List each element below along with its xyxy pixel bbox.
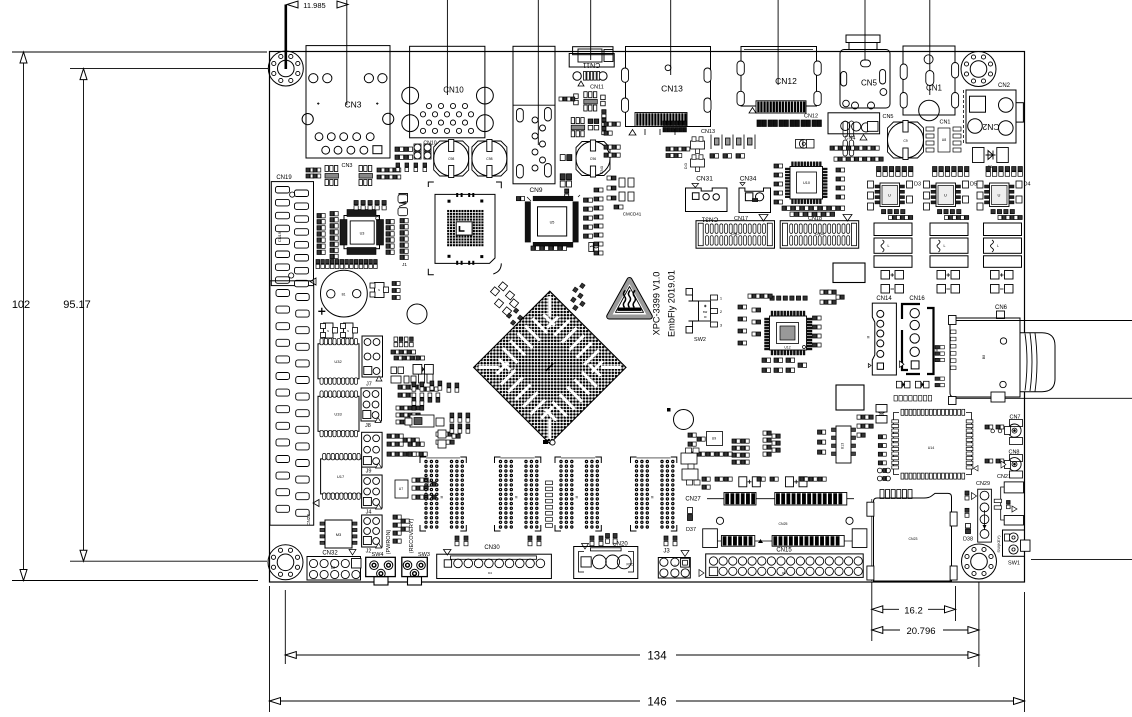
- svg-text:U17: U17: [337, 474, 345, 479]
- svg-text:D4: D4: [488, 571, 492, 575]
- svg-text:CN12: CN12: [775, 76, 797, 86]
- hole below SW2: [667, 408, 694, 430]
- svg-text:U7: U7: [399, 487, 404, 491]
- svg-text:J8: J8: [365, 423, 371, 429]
- shield pad square 2: [836, 385, 864, 410]
- svg-text:CN32: CN32: [322, 551, 338, 557]
- push button part above U10: [796, 139, 815, 148]
- passive cluster x688 y432: [688, 432, 732, 457]
- buck converter block 2 with IC D5: [924, 167, 978, 268]
- passives below U12: [762, 358, 807, 372]
- IC U8 with side pads: [926, 127, 961, 152]
- leader line to connector CN3: [346, 0, 348, 105]
- svg-text:CN10: CN10: [443, 86, 464, 95]
- mounting hole H2 top-right: [961, 52, 996, 87]
- svg-text:CN22: CN22: [306, 514, 311, 526]
- svg-text:M: M: [575, 495, 579, 498]
- connector CN15: [699, 548, 863, 578]
- diodes D41 area: [614, 178, 642, 217]
- passive cluster x396 y406: [396, 406, 420, 424]
- marker triangle near CN22: [313, 500, 319, 507]
- connector CN27: [685, 493, 854, 506]
- svg-text:CN2: CN2: [982, 122, 999, 132]
- passives right of U10: [836, 168, 845, 199]
- RF connector CN7: [985, 415, 1023, 445]
- passive rows below CN4: [830, 146, 883, 161]
- svg-text:U8: U8: [942, 138, 947, 142]
- DDR memory footprint M5: [420, 457, 466, 531]
- svg-text:ROD: ROD: [626, 563, 634, 567]
- svg-text:20.796: 20.796: [906, 626, 935, 637]
- mirrored label CN31: [701, 216, 718, 223]
- bypass capacitors right of U3: [386, 219, 408, 260]
- connector CN4: [828, 113, 880, 142]
- small connector outline left of SoC: [405, 413, 470, 448]
- svg-text:D38: D38: [963, 537, 973, 543]
- IC U10 (QFP): [785, 162, 827, 204]
- U6 corner brackets: [428, 182, 501, 275]
- svg-text:CN11: CN11: [590, 85, 604, 91]
- leader line to connector CN5: [864, 0, 866, 60]
- svg-text:16.2: 16.2: [904, 605, 923, 616]
- pads top-left of U5: [516, 197, 524, 201]
- capacitor cluster below C96: [560, 174, 571, 198]
- connector CN10 (dual USB): [402, 46, 493, 146]
- svg-text:U9: U9: [712, 437, 717, 441]
- passives below DDR1: [455, 536, 468, 546]
- buzzer symbol: [398, 195, 408, 216]
- svg-text:U: U: [888, 193, 891, 198]
- IC M3: [320, 520, 357, 548]
- svg-text:D6: D6: [782, 571, 786, 575]
- svg-text:(PWRON): (PWRON): [386, 529, 392, 554]
- passive cluster x398 y385: [398, 385, 438, 397]
- transistor right of battery: [370, 283, 389, 298]
- passive grid x732 y439: [732, 439, 749, 464]
- svg-text:CN29: CN29: [976, 481, 990, 487]
- rotated passives top-right of SoC: [571, 283, 586, 311]
- svg-text:CN6: CN6: [995, 305, 1008, 311]
- connector CN31: [686, 176, 728, 212]
- svg-text:CN14: CN14: [876, 296, 892, 302]
- connector CN2 (DC barrel jack): [964, 83, 1024, 143]
- svg-text:J7: J7: [366, 382, 372, 388]
- passives below DDR4: [664, 536, 677, 546]
- svg-text:SW1: SW1: [1008, 561, 1020, 567]
- output capacitor bank 2: [937, 271, 960, 294]
- svg-text:U5: U5: [550, 221, 555, 225]
- svg-text:CN31: CN31: [696, 176, 713, 183]
- svg-text:CMCD41: CMCD41: [623, 212, 642, 217]
- silkscreen text EmbFly 2019.01: [667, 270, 677, 337]
- svg-text:M: M: [515, 495, 519, 498]
- connector CN9 (DC jack / vertical connector): [513, 46, 555, 194]
- passive cluster left of SoC row2: [412, 393, 440, 410]
- pads right of battery: [392, 282, 400, 300]
- pads below CN14/CN16: [896, 381, 929, 388]
- svg-text:J2: J2: [366, 549, 372, 555]
- connector CN12 (HDMI type): [737, 47, 821, 107]
- vertical label txCN0: [599, 165, 604, 174]
- svg-text:CN13: CN13: [701, 129, 715, 135]
- passives right of U13: [857, 415, 873, 437]
- passive pads right of CN9: [559, 97, 575, 101]
- passive cluster left of CN31: [604, 122, 620, 157]
- svg-text:CN3: CN3: [341, 163, 352, 169]
- connector CN17: [696, 215, 775, 249]
- header J2: [362, 515, 383, 555]
- svg-text:11.985: 11.985: [303, 1, 325, 10]
- svg-text:M: M: [651, 495, 655, 498]
- pad row below CN16: [894, 396, 932, 402]
- svg-text:CN21: CN21: [997, 474, 1011, 480]
- IC U12 (QFP): [765, 311, 813, 355]
- svg-text:U3: U3: [360, 232, 365, 236]
- mounting hole H1 top-left: [268, 51, 303, 86]
- battery holder B1: [318, 270, 367, 317]
- transistor Q2: [684, 155, 705, 172]
- switch SW4 (PWRON): [366, 529, 396, 585]
- connector CN13 (HDMI): [622, 47, 712, 127]
- header J4: [362, 475, 383, 516]
- capacitor C96: [576, 140, 610, 177]
- svg-text:102: 102: [12, 299, 30, 311]
- resistor network U40 under CN11: [574, 92, 606, 111]
- pads bottom-left of SoC: [408, 442, 424, 456]
- svg-text:CN13: CN13: [661, 84, 683, 94]
- connector CN14: [867, 296, 897, 375]
- capacitor pads right of CN11: [602, 110, 606, 135]
- passive cluster right of J7: [391, 337, 425, 360]
- buck converter block 1 with IC D3: [868, 167, 922, 268]
- passives above U12: [748, 294, 807, 300]
- bypass capacitors left of U3: [317, 212, 338, 259]
- dimension 95.17 (left): [63, 69, 268, 562]
- svg-text:CN5: CN5: [882, 114, 893, 120]
- passives right of U12: [813, 316, 822, 347]
- svg-text:C9: C9: [903, 139, 907, 143]
- pad column between DDR2 and DDR3: [546, 481, 553, 527]
- passive grid x763 y431: [763, 431, 780, 456]
- svg-text:CN27: CN27: [685, 497, 701, 503]
- pad group row y120: [757, 120, 821, 127]
- dimension 20.796 (bottom right): [872, 626, 979, 637]
- IC U5 (QFP): [525, 195, 580, 247]
- svg-text:CN30: CN30: [484, 545, 500, 551]
- diode pair left of SoC: [413, 365, 433, 375]
- diode D37: [686, 508, 696, 534]
- svg-text:CN2: CN2: [998, 83, 1011, 89]
- connector CN16: [900, 296, 940, 374]
- SoC pin1 ball: [543, 440, 555, 445]
- DDR memory footprint M7: [555, 457, 601, 531]
- leader line to connector CN9: [537, 0, 539, 145]
- SD card slot CN23: [867, 493, 957, 581]
- svg-text:CN0: CN0: [599, 165, 604, 174]
- resistor row with vertical leads: [711, 135, 755, 150]
- hot surface warning triangle: [609, 280, 650, 317]
- passives below DDR2: [528, 536, 541, 546]
- svg-text:CN23: CN23: [909, 537, 918, 541]
- leader line to connector CN13: [670, 0, 672, 75]
- DDR memory footprint M8: [631, 457, 677, 531]
- connector CN20: [574, 542, 638, 579]
- resistor network U41: [571, 118, 599, 137]
- svg-text:U13: U13: [841, 443, 845, 449]
- diode D38: [963, 524, 973, 543]
- header J7: [362, 336, 383, 388]
- header J3: [658, 549, 690, 579]
- diode D8: [973, 148, 1009, 170]
- passives left of U10: [774, 164, 783, 204]
- leader line to connector CN12: [777, 0, 779, 85]
- svg-text:B8: B8: [982, 355, 986, 359]
- passives below U10: [782, 206, 845, 216]
- passive cluster right of J4: [395, 478, 436, 499]
- header J8: [361, 388, 382, 429]
- passives top right cluster y290 x820: [820, 290, 844, 304]
- svg-text:CN11: CN11: [583, 61, 600, 68]
- capacitor diode group y477: [715, 477, 826, 487]
- svg-text:XPC-3399 V1.0: XPC-3399 V1.0: [652, 272, 662, 336]
- shield pad square 1: [833, 263, 865, 283]
- passive cluster left of SoC row1: [412, 381, 459, 392]
- leader line to connector CN10: [446, 0, 448, 95]
- svg-text:SW(KEY): SW(KEY): [996, 535, 1001, 553]
- svg-text:U: U: [944, 193, 947, 198]
- svg-text:C96: C96: [590, 157, 596, 161]
- marker triangle below CN19: [310, 278, 316, 285]
- svg-text:M: M: [440, 495, 444, 498]
- svg-text:C98: C98: [486, 157, 492, 161]
- svg-text:134: 134: [647, 651, 667, 663]
- IC U17: [321, 453, 362, 499]
- capacitor row y154: [710, 154, 745, 158]
- svg-text:SW2: SW2: [694, 337, 706, 343]
- inductor below right of U5: [589, 243, 599, 252]
- CN12 pin block: [749, 101, 818, 120]
- svg-text:EmbFly 2019.01: EmbFly 2019.01: [667, 270, 677, 337]
- switch SW2: [686, 289, 723, 344]
- svg-text:CN12: CN12: [804, 114, 818, 120]
- svg-text:CN17: CN17: [734, 216, 748, 222]
- passives below DDR3: [590, 536, 603, 546]
- svg-text:CN16: CN16: [909, 296, 925, 302]
- svg-text:CN18: CN18: [808, 216, 822, 222]
- svg-text:CN31: CN31: [701, 216, 718, 223]
- svg-text:CN19: CN19: [276, 175, 292, 181]
- passive cluster right of J9: [387, 434, 427, 456]
- hole: [407, 304, 427, 324]
- switch SW1 (KEY): [996, 530, 1132, 567]
- connector CN22 (long edge connector): [270, 281, 314, 526]
- dimension 11.985 (top left): [287, 1, 348, 10]
- mounting hole H4 bottom-right: [962, 544, 997, 579]
- svg-text:D4: D4: [1023, 182, 1030, 188]
- svg-text:CN34: CN34: [740, 176, 757, 183]
- buck converter block 3 with IC D4: [977, 167, 1031, 268]
- capacitor C99: [472, 140, 507, 178]
- svg-text:D5: D5: [970, 182, 977, 188]
- svg-text:U14: U14: [928, 446, 935, 450]
- svg-text:M: M: [867, 335, 871, 338]
- capacitor C98: [434, 140, 469, 178]
- svg-text:U12: U12: [784, 346, 790, 350]
- connector CN18: [780, 215, 859, 249]
- pad row below wifi module: [880, 490, 912, 499]
- svg-text:CN9: CN9: [529, 187, 542, 194]
- DDR memory footprint M6: [495, 457, 541, 531]
- switch SW3 (RECOVERY): [402, 519, 430, 585]
- leader line to connector CN1: [929, 0, 931, 95]
- svg-text:M3: M3: [336, 532, 342, 537]
- svg-text:CN18: CN18: [815, 232, 824, 236]
- svg-text:CN15: CN15: [776, 548, 792, 554]
- svg-text:D3: D3: [914, 182, 921, 188]
- svg-text:M2: M2: [331, 566, 336, 570]
- dimension 16.2 (bottom right): [872, 582, 956, 641]
- svg-text:B1: B1: [342, 292, 346, 296]
- svg-text:CN5: CN5: [861, 79, 878, 88]
- vertical IC right cluster x836: [818, 426, 856, 463]
- connector CN34: [739, 176, 771, 213]
- IC U32: [318, 338, 359, 384]
- connector CN25 lower strips: [703, 517, 867, 547]
- IC U3 (QFP): [340, 210, 384, 255]
- svg-text:L: L: [888, 244, 890, 248]
- fiducial square left of U6: [399, 194, 408, 203]
- dimension 134 (bottom): [285, 582, 979, 667]
- svg-text:L: L: [997, 244, 999, 248]
- connector CN29: [965, 481, 991, 542]
- transistor pair below battery: [321, 323, 358, 338]
- connector CN32: [307, 550, 361, 581]
- svg-text:C98: C98: [448, 157, 454, 161]
- svg-text:CN4: CN4: [844, 136, 855, 142]
- capacitor C94 (electrolytic): [888, 121, 924, 160]
- board outline: [270, 52, 1025, 583]
- passive column above CN32: [393, 515, 409, 543]
- connector CN3 (RJ45 jack): [302, 46, 394, 169]
- passive cluster left of C98: [395, 144, 431, 172]
- leader line to mounting hole H1 (thick): [284, 5, 287, 70]
- output capacitor bank 1: [881, 271, 904, 294]
- RF connector CN8: [985, 450, 1023, 479]
- passive column x606: [607, 176, 616, 200]
- pads below U5: [531, 246, 567, 250]
- RF connector CN21: [994, 474, 1023, 525]
- svg-text:CN17: CN17: [731, 232, 740, 236]
- connector CN5 (mini-DIN): [840, 35, 894, 120]
- CN13 pin block: [629, 113, 715, 136]
- svg-text:D37: D37: [686, 527, 696, 533]
- mounting hole H3 bottom-left: [268, 545, 303, 580]
- svg-text:CN3: CN3: [344, 100, 361, 110]
- connector CN30: [437, 545, 552, 579]
- connector CN11 (micro USB): [569, 47, 614, 91]
- passives right of J2 row: [436, 432, 460, 444]
- connector CN19: [271, 175, 313, 287]
- svg-text:U10: U10: [803, 181, 810, 185]
- SoC U1 (BGA, rotated 45deg): [474, 291, 626, 443]
- svg-text:J3: J3: [663, 549, 670, 555]
- svg-text:sw: sw: [703, 310, 708, 314]
- capacitor row above U3: [354, 201, 386, 210]
- SOT components above CN27: [681, 448, 710, 489]
- svg-text:146: 146: [647, 697, 666, 709]
- dimension 102 (left): [12, 52, 267, 581]
- svg-text:J9: J9: [366, 469, 372, 475]
- passives left of U12: [738, 305, 761, 345]
- leader line to connector CN11: [590, 0, 592, 60]
- silkscreen text XPC-3399 V1.0: [652, 272, 662, 336]
- capacitor row below U3: [316, 260, 407, 269]
- passive column x594: [594, 188, 603, 255]
- header J9: [362, 432, 383, 474]
- svg-text:(RECOVERY): (RECOVERY): [409, 519, 415, 554]
- pads above CN20: [606, 534, 618, 544]
- connector CN1 (AV jack): [900, 46, 958, 126]
- rotated passives top-left of SoC: [490, 282, 522, 326]
- svg-text:J1: J1: [402, 262, 407, 267]
- svg-text:U33: U33: [334, 411, 342, 416]
- vertical pill pads left of C94: [843, 121, 854, 156]
- IC U33: [318, 391, 359, 437]
- wifi module U14: [892, 409, 978, 479]
- svg-text:95.17: 95.17: [63, 299, 91, 311]
- output capacitor bank 3: [991, 271, 1014, 294]
- pads right of U5: [584, 198, 593, 238]
- connector CN6 (USB3 stacked, overhanging edge): [949, 305, 1132, 405]
- capacitor C95 pads: [560, 155, 572, 161]
- passive cluster below CN3: [306, 166, 401, 186]
- dimension 146 (bottom): [270, 586, 1025, 712]
- diode above wifi module: [876, 405, 887, 424]
- pad column left of CN6: [935, 346, 944, 387]
- passive cluster below CN13 left: [663, 121, 690, 158]
- svg-text:U32: U32: [334, 359, 342, 364]
- svg-text:L: L: [944, 244, 946, 248]
- svg-text:CN25: CN25: [779, 522, 788, 526]
- pads left of wifi module: [877, 435, 890, 481]
- svg-text:D.D: D.D: [684, 163, 688, 170]
- IC U6 (BGA socket footprint): [435, 193, 495, 265]
- svg-text:CN1: CN1: [939, 120, 950, 126]
- passive cluster right of J8: [391, 367, 433, 383]
- transistor Q1: [691, 137, 705, 154]
- svg-text:U: U: [998, 193, 1001, 198]
- svg-text:CN19: CN19: [277, 231, 282, 242]
